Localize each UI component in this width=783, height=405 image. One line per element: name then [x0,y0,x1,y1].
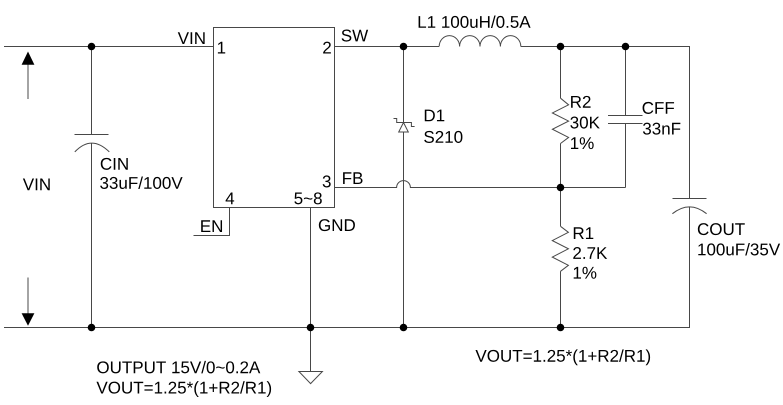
pin 4 number [226,193,235,205]
junction: SW node top [400,43,408,51]
pin 5~8 number [294,192,321,204]
wire: CFF top branch [625,47,627,116]
pin 1 number [218,42,225,54]
junction: FB divider node [557,184,565,192]
value label CIN 33uF/100V [100,158,182,189]
wire: top VIN rail into pin 1 [4,46,214,48]
inductor L1 [439,36,521,47]
pin label GND [319,219,355,231]
junction: CIN bottom [88,324,96,332]
wire: CFF bottom branch [625,124,627,188]
note VOUT formula right [475,349,650,365]
capacitor CFF [608,116,643,124]
capacitor COUT [672,199,706,214]
wire: R1 bottom branch [560,271,562,327]
value label L1 100uH/0.5A [419,15,531,27]
wire: SW pin 2 to inductor L1 [335,46,440,48]
node VIN label [23,179,50,191]
junction: CFF top [622,43,630,51]
junction: R2 top [557,43,565,51]
value label COUT 100uF/35V [698,223,780,255]
junction: diode bottom [400,324,408,332]
wire: R2 top branch [560,47,562,99]
wire: GND pin 5~8 to ground rail [310,208,312,328]
wire: R2 bottom branch [560,144,562,188]
wire: COUT bottom to ground rail [689,207,691,328]
ground [299,372,323,384]
wire: diode D1 bottom branch to ground rail [403,132,405,328]
note OUTPUT 15V/0~0.2A [97,361,260,373]
wire: CIN top branch [91,47,93,135]
wire: bottom ground rail [4,327,690,329]
pin 2 number [323,42,331,54]
capacitor CIN [75,135,110,152]
junction: R1 bottom [557,324,565,332]
node VIN input arrow down [22,278,35,326]
pin label VIN [178,32,205,44]
pin label FB [343,172,362,184]
value label R1 2.7K 1% [573,227,607,278]
IC regulator box [214,28,335,208]
pin label EN [201,220,222,232]
value label D1 S210 [424,110,462,143]
resistor R1 [552,226,568,271]
pin label SW [342,30,369,42]
value label CFF 33nF [643,102,681,135]
wire: EN pin 4 stub and underline [194,208,230,236]
wire: right drop to COUT top plate [689,47,691,199]
value label R2 30K 1% [570,96,599,149]
resistor R2 [552,98,568,143]
wire: CIN bottom branch [91,143,93,327]
junction: GND bottom [307,324,315,332]
wire: diode D1 top branch from SW node [403,47,405,123]
diode D1 schottky [394,119,415,133]
wire: FB line with hop over diode branch [335,181,626,188]
note VOUT formula left [96,381,271,397]
junction: CIN top [88,43,96,51]
wire: R1 top branch [560,188,562,227]
pin 3 number [323,175,331,187]
wire: inductor L1 to top-right corner [521,46,690,48]
wire: ground stub below rail [310,328,312,372]
node VIN input arrow up [22,52,35,100]
